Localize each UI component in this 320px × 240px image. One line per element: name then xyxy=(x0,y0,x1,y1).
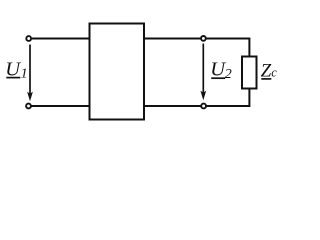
label U2 xyxy=(210,59,232,82)
node top-right xyxy=(201,36,206,41)
label U1 xyxy=(5,59,27,82)
voltage arrow U2 xyxy=(200,44,206,101)
terminal top-left xyxy=(26,36,31,41)
wire top-left xyxy=(32,38,89,40)
impedance Zc xyxy=(242,57,257,89)
svg-text:2: 2 xyxy=(225,67,232,82)
wire top-right xyxy=(145,39,250,57)
voltage arrow U1 xyxy=(27,45,33,102)
wire bottom-left xyxy=(32,105,90,107)
node bottom-right xyxy=(201,104,206,109)
label Zc xyxy=(261,60,278,81)
wire bottom-right xyxy=(145,89,250,106)
svg-text:1: 1 xyxy=(21,67,28,82)
terminal bottom-left xyxy=(26,104,31,109)
svg-text:c: c xyxy=(271,66,277,80)
two-port network box xyxy=(90,24,145,120)
